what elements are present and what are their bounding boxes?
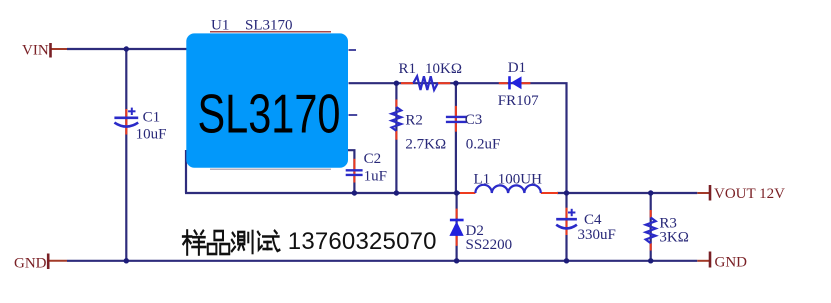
svg-text:R1: R1 [399,61,417,77]
svg-text:100UH: 100UH [498,172,542,188]
svg-text:R2: R2 [405,113,423,129]
svg-text:C1: C1 [143,110,161,126]
svg-text:C3: C3 [465,112,483,128]
svg-text:10KΩ: 10KΩ [425,61,462,77]
svg-text:1uF: 1uF [364,169,387,185]
svg-text:SL3170: SL3170 [245,18,293,34]
svg-text:GND: GND [715,255,748,271]
svg-text:GND: GND [14,256,47,272]
svg-text:C2: C2 [364,151,382,167]
svg-text:D1: D1 [508,60,526,76]
svg-text:SL3170: SL3170 [198,83,341,145]
svg-text:13760325070: 13760325070 [288,228,437,255]
svg-text:C4: C4 [584,212,602,228]
svg-text:2.7KΩ: 2.7KΩ [405,137,446,153]
svg-text:0.2uF: 0.2uF [466,137,501,153]
svg-text:U1: U1 [211,18,229,34]
svg-text:10uF: 10uF [136,126,167,142]
svg-text:330uF: 330uF [578,227,616,243]
svg-text:FR107: FR107 [498,93,539,109]
svg-text:VOUT 12V: VOUT 12V [714,186,785,202]
svg-text:SS2200: SS2200 [466,237,513,253]
svg-text:L1: L1 [474,172,491,188]
svg-text:3KΩ: 3KΩ [659,230,688,246]
svg-text:VIN: VIN [22,43,49,59]
